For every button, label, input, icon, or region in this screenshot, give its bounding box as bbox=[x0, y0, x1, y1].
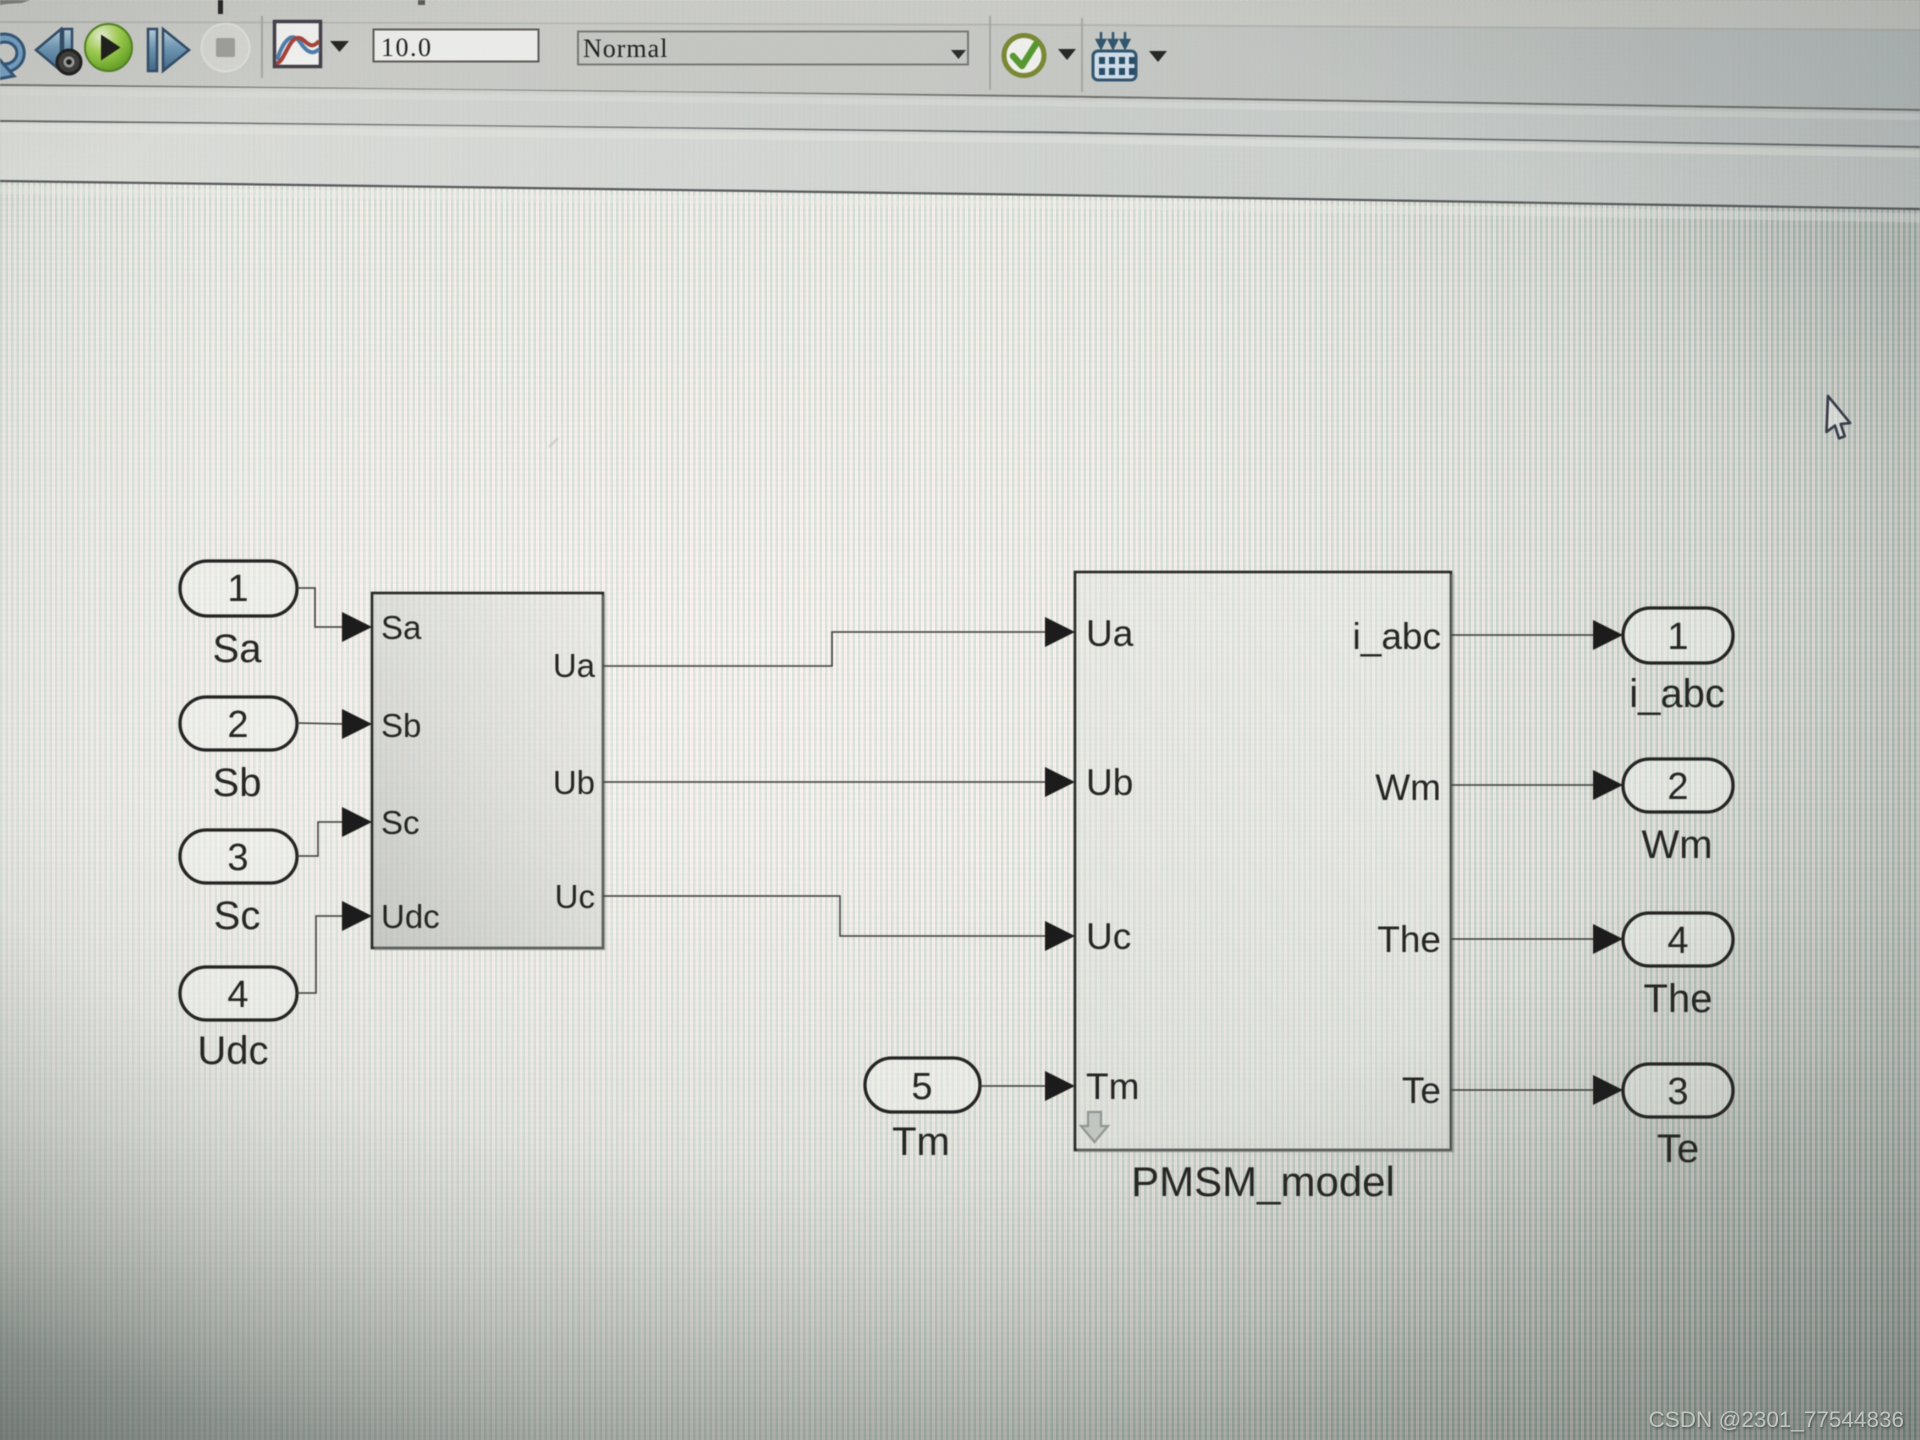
watermark bbox=[1648, 1407, 1904, 1433]
outport 3 bbox=[1623, 1064, 1733, 1117]
inport 2 bbox=[180, 697, 297, 750]
top tick mark bbox=[218, 0, 223, 14]
toolbar separator 3 bbox=[1081, 18, 1083, 92]
PMSM block shadow bbox=[1077, 574, 1453, 1151]
toolbar button: io table bbox=[1093, 32, 1136, 80]
svg-text:Normal: Normal bbox=[583, 34, 668, 63]
converter block bbox=[372, 593, 603, 948]
arrowhead converter Sb bbox=[342, 709, 372, 739]
check dropdown arrow bbox=[1058, 49, 1076, 60]
simulation mode combo bbox=[578, 32, 968, 65]
arrowhead converter Udc bbox=[342, 901, 372, 931]
svg-text:2: 2 bbox=[227, 704, 248, 746]
toolbar button: step forward bbox=[148, 29, 189, 71]
toolbar button: run bbox=[85, 24, 132, 71]
arrowhead outport 2 bbox=[1593, 770, 1623, 800]
mouse cursor bbox=[1825, 396, 1852, 439]
inport 4 bbox=[180, 967, 297, 1020]
arrowhead outport 3 bbox=[1593, 1075, 1623, 1105]
wire PMSM Te to outport 3 bbox=[1451, 1089, 1595, 1091]
toolbar separator 1 bbox=[261, 16, 263, 78]
glare under line C bbox=[0, 190, 1920, 218]
arrowhead PMSM Ua bbox=[1045, 617, 1075, 647]
svg-text:The: The bbox=[1377, 919, 1441, 960]
svg-text:PMSM_model: PMSM_model bbox=[1131, 1158, 1395, 1205]
PMSM_model block bbox=[1075, 572, 1451, 1150]
top band bottom line bbox=[0, 22, 1920, 30]
arrowhead PMSM Uc bbox=[1045, 921, 1075, 951]
line B bbox=[0, 121, 1920, 147]
svg-text:Tm: Tm bbox=[892, 1120, 950, 1164]
wire inport5 to PMSM Tm bbox=[980, 1085, 1047, 1087]
arrowhead outport 4 bbox=[1593, 924, 1623, 954]
arrowhead PMSM Tm bbox=[1045, 1071, 1075, 1101]
io table dropdown arrow bbox=[1149, 51, 1167, 62]
svg-text:Ub: Ub bbox=[1086, 762, 1133, 803]
svg-text:4: 4 bbox=[227, 974, 248, 1016]
wire inport4 to converter Udc bbox=[297, 916, 344, 993]
svg-text:Wm: Wm bbox=[1641, 823, 1712, 867]
svg-text:The: The bbox=[1644, 977, 1713, 1021]
svg-text:i_abc: i_abc bbox=[1353, 616, 1441, 657]
wire converter Uc to PMSM Uc bbox=[603, 896, 1047, 936]
svg-text:3: 3 bbox=[1667, 1071, 1688, 1113]
svg-text:Sc: Sc bbox=[381, 804, 420, 841]
svg-text:Udc: Udc bbox=[197, 1029, 268, 1073]
outport 2 bbox=[1623, 759, 1733, 812]
toolbar button: scope bbox=[275, 22, 321, 67]
inport 1 bbox=[180, 561, 297, 616]
top small dot bbox=[418, 0, 425, 5]
wire inport3 to converter Sc bbox=[297, 822, 344, 856]
wire PMSM i_abc to outport 1 bbox=[1451, 634, 1595, 636]
arrowhead converter Sa bbox=[342, 612, 372, 642]
toolbar button: update check bbox=[1004, 36, 1044, 76]
svg-text:Sa: Sa bbox=[213, 627, 263, 671]
svg-text:5: 5 bbox=[911, 1066, 932, 1108]
sim stop time field bbox=[374, 30, 539, 63]
outport 4 bbox=[1623, 913, 1733, 966]
scope dropdown arrow bbox=[330, 41, 349, 52]
svg-text:Uc: Uc bbox=[1086, 916, 1131, 957]
wire PMSM Wm to outport 2 bbox=[1451, 784, 1595, 786]
window top band bbox=[0, 0, 1920, 30]
svg-text:2: 2 bbox=[1667, 766, 1688, 808]
wire inport2 to converter Sb bbox=[297, 723, 344, 724]
outport 1 bbox=[1623, 608, 1733, 663]
toolbar icon: update diagram (cut off at left edge) bbox=[0, 34, 24, 80]
svg-text:Ub: Ub bbox=[553, 764, 595, 801]
wire PMSM The to outport 4 bbox=[1451, 938, 1595, 940]
inport 3 bbox=[180, 830, 297, 883]
svg-text:Wm: Wm bbox=[1375, 767, 1441, 808]
svg-text:10.0: 10.0 bbox=[381, 33, 433, 62]
band between line A and line B bbox=[0, 86, 1920, 147]
svg-text:Tm: Tm bbox=[1086, 1066, 1139, 1107]
wire converter Ua to PMSM Ua bbox=[603, 632, 1047, 666]
svg-text:1: 1 bbox=[227, 568, 248, 610]
line C bbox=[0, 181, 1920, 209]
converter block shadow bbox=[374, 595, 604, 949]
svg-text:Sc: Sc bbox=[214, 894, 261, 938]
toolbar button: stop (disabled) bbox=[202, 24, 250, 72]
toolbar button: step back bbox=[36, 29, 81, 74]
svg-text:3: 3 bbox=[227, 837, 248, 879]
svg-text:Ua: Ua bbox=[1086, 613, 1134, 654]
glare under line B bbox=[0, 128, 1920, 154]
svg-text:Uc: Uc bbox=[555, 878, 595, 915]
top-left dark smudge bbox=[0, 0, 30, 5]
svg-text:Ua: Ua bbox=[553, 647, 596, 684]
svg-text:i_abc: i_abc bbox=[1629, 672, 1725, 716]
toolbar bottom line A bbox=[0, 85, 1920, 110]
svg-text:Te: Te bbox=[1402, 1070, 1441, 1111]
svg-text:4: 4 bbox=[1667, 920, 1688, 962]
svg-text:1: 1 bbox=[1667, 616, 1688, 658]
toolbar separator 2 bbox=[989, 16, 991, 90]
svg-text:Sa: Sa bbox=[381, 609, 422, 646]
glare under line A bbox=[0, 92, 1920, 117]
svg-text:Sb: Sb bbox=[381, 707, 421, 744]
arrowhead outport 1 bbox=[1593, 620, 1623, 650]
svg-text:Udc: Udc bbox=[381, 898, 440, 935]
inport 5 bbox=[865, 1058, 980, 1112]
wire converter Ub to PMSM Ub bbox=[603, 781, 1047, 783]
toolbar band bbox=[0, 23, 1920, 110]
PMSM subsystem arrow icon bbox=[1081, 1112, 1108, 1142]
arrowhead PMSM Ub bbox=[1045, 767, 1075, 797]
svg-text:Sb: Sb bbox=[213, 761, 262, 805]
arrowhead converter Sc bbox=[342, 807, 372, 837]
dust speck bbox=[549, 438, 558, 447]
band between line B and line C bbox=[0, 122, 1920, 209]
wire inport1 to converter Sa bbox=[297, 588, 344, 627]
svg-text:Te: Te bbox=[1657, 1127, 1699, 1171]
